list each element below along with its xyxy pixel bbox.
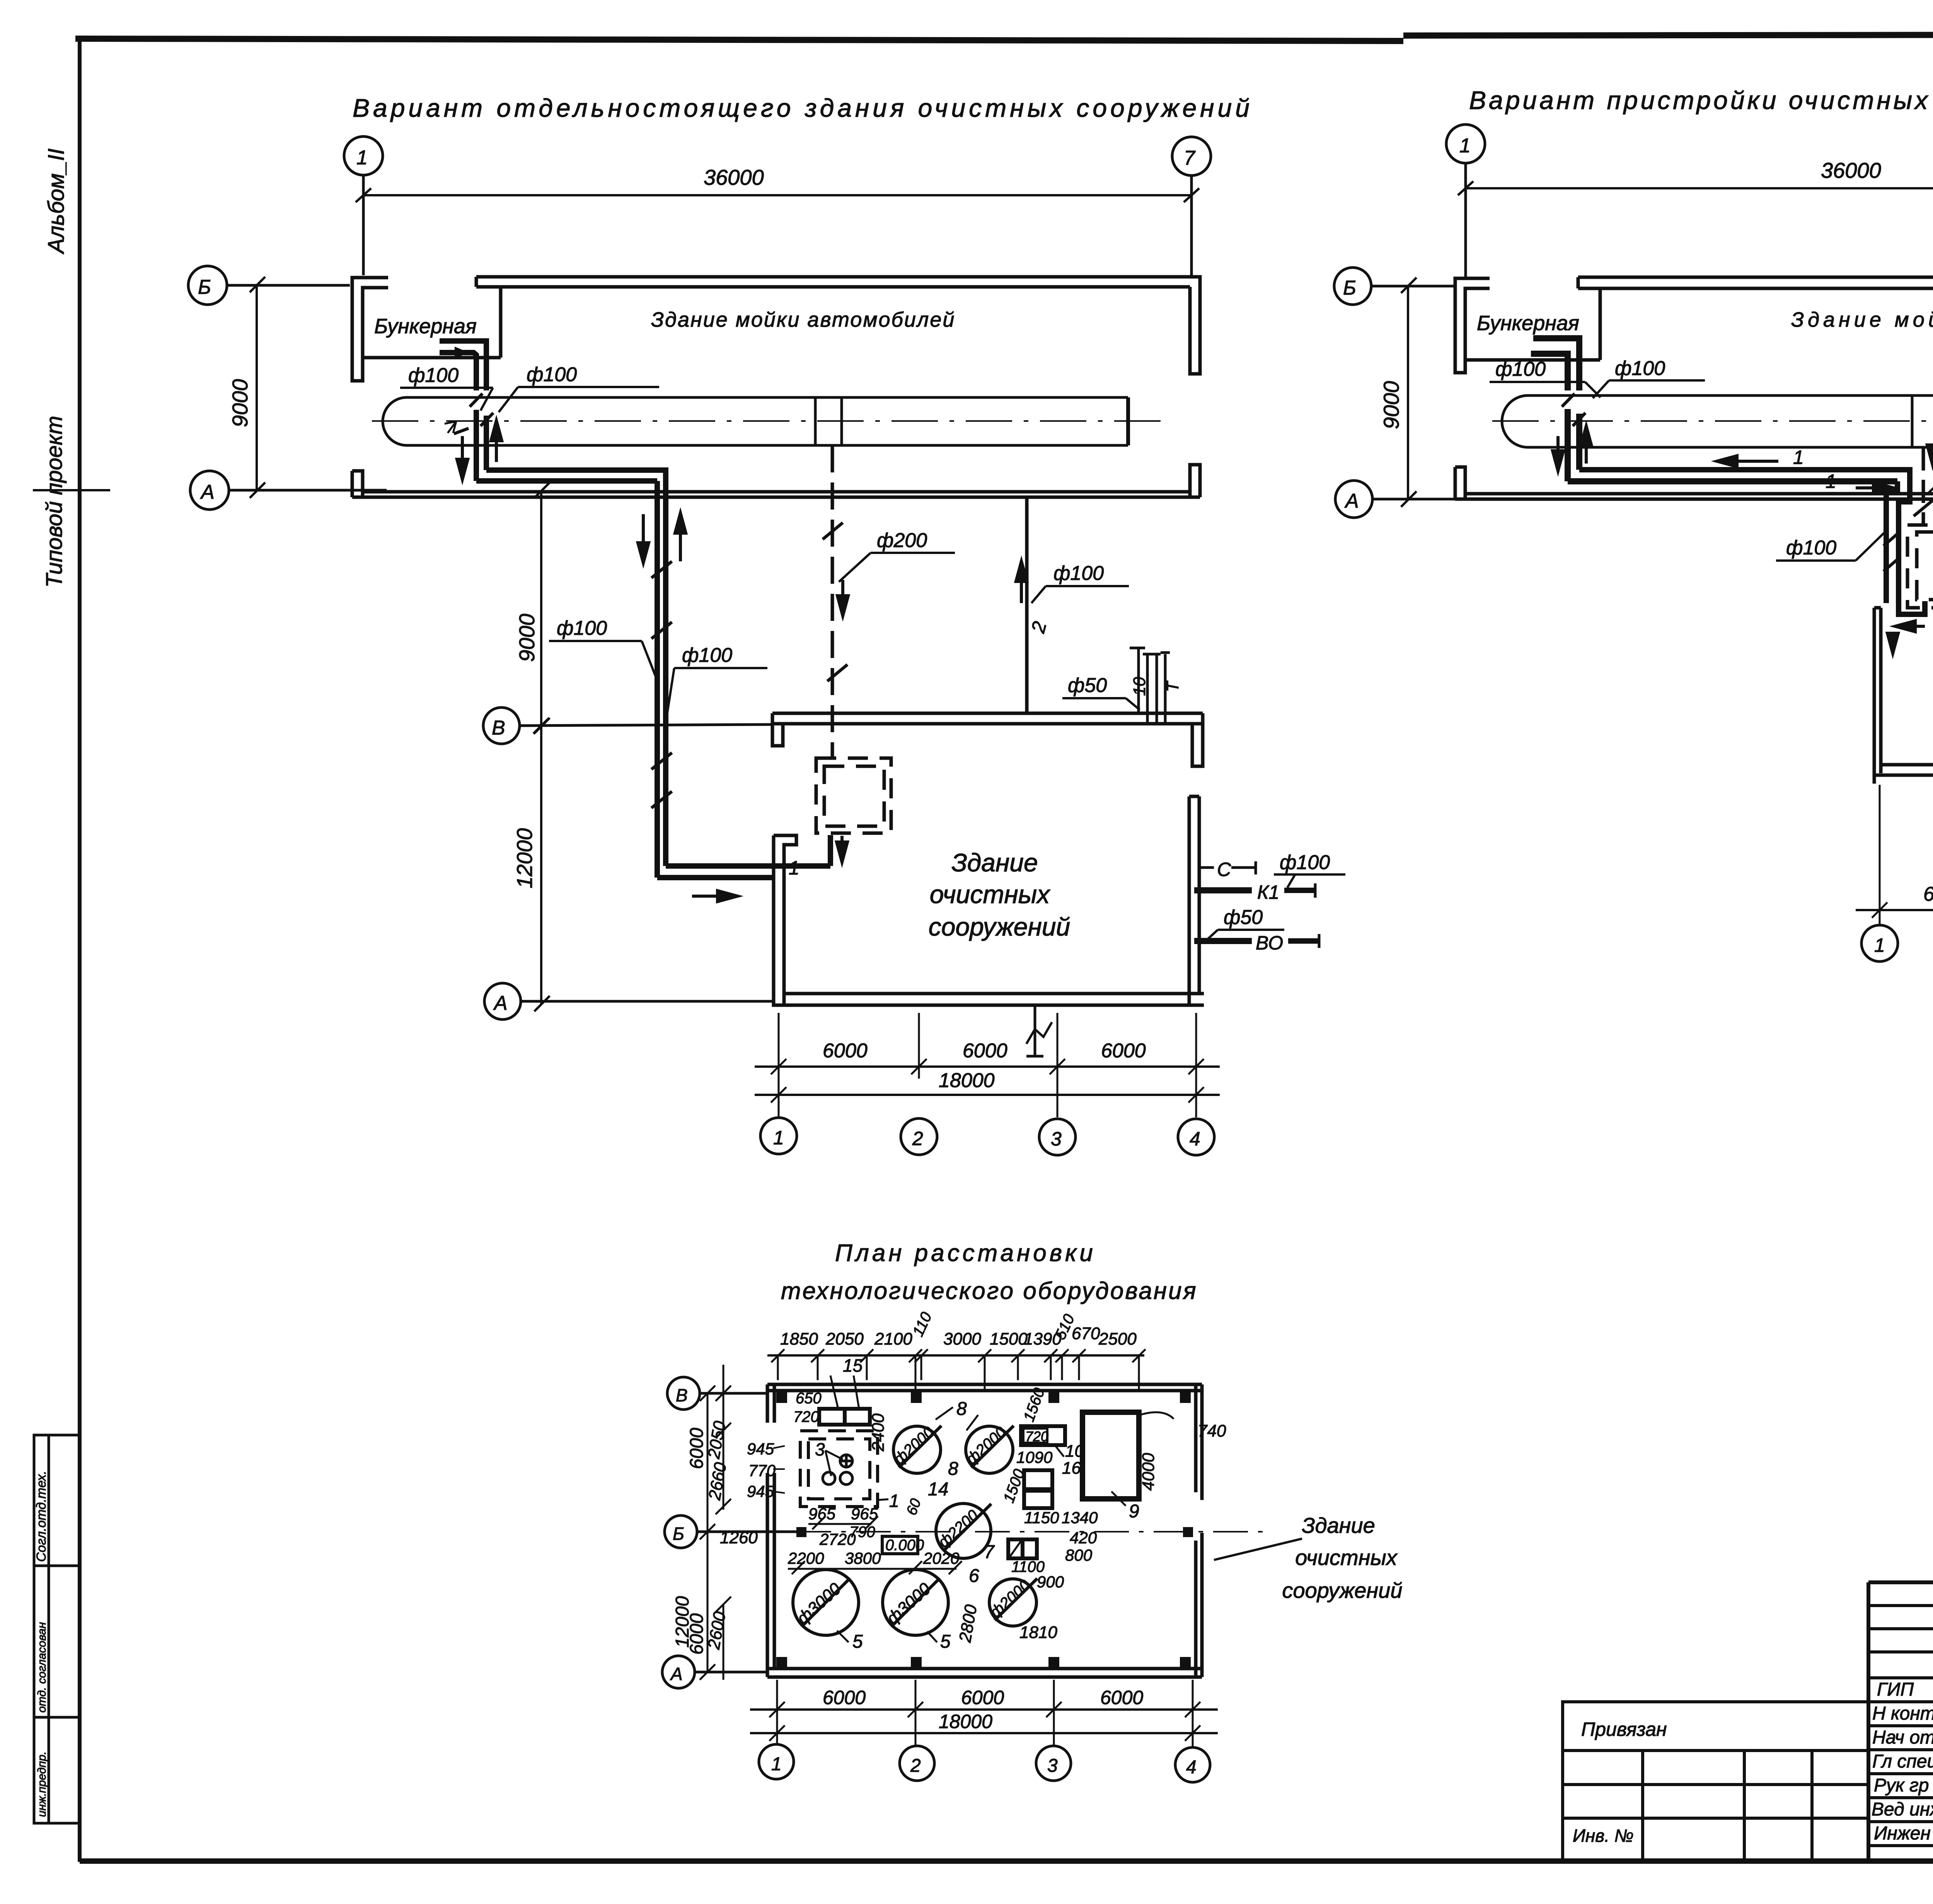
svg-text:14: 14 xyxy=(928,1479,948,1500)
svg-text:1: 1 xyxy=(789,857,799,879)
svg-text:ф100: ф100 xyxy=(682,644,732,666)
wash building walls (right drawing) xyxy=(1455,277,1933,530)
circles f2000 pair (pos 8) xyxy=(893,1426,1014,1473)
building label with leader xyxy=(1282,1513,1403,1602)
dim 9000 vertical left xyxy=(228,277,265,498)
dim 9000 vertical right drawing xyxy=(1379,278,1417,507)
slash marks on vertical pipe xyxy=(651,561,672,808)
svg-text:Вед инж: Вед инж xyxy=(1872,1799,1933,1820)
svg-text:2500: 2500 xyxy=(1098,1330,1137,1348)
svg-text:6000: 6000 xyxy=(823,1040,868,1062)
axis 1 circle xyxy=(1446,124,1485,277)
svg-text:15: 15 xyxy=(843,1355,863,1376)
svg-text:План расстановки: План расстановки xyxy=(835,1240,1096,1266)
svg-text:6000: 6000 xyxy=(687,1428,707,1469)
svg-text:ф100: ф100 xyxy=(1495,358,1546,380)
svg-text:А: А xyxy=(670,1664,683,1684)
svg-text:4: 4 xyxy=(1190,1128,1200,1150)
plan top dim chain xyxy=(767,1309,1145,1390)
dim 36000 right xyxy=(1458,158,1933,195)
svg-text:770: 770 xyxy=(748,1461,776,1480)
axis 1 circle xyxy=(344,136,383,275)
pipe f200 dashed vertical xyxy=(831,445,834,758)
outlet BO f50 xyxy=(1194,906,1319,954)
bottom dim chain right drawing xyxy=(1856,777,1933,925)
svg-text:Здание мойки автомобилей: Здание мойки автомобилей xyxy=(651,308,955,331)
plan axis circles left xyxy=(662,1377,796,1688)
svg-text:3800: 3800 xyxy=(845,1549,881,1567)
svg-text:1: 1 xyxy=(1459,135,1471,157)
svg-text:С: С xyxy=(1217,859,1231,880)
svg-text:1: 1 xyxy=(1874,934,1885,956)
wash bottom wall xyxy=(363,490,1190,494)
labels f100 f100 upper xyxy=(400,363,659,412)
svg-text:Вариант пристройки очистных: Вариант пристройки очистных сооружений к… xyxy=(1469,86,1933,114)
svg-text:4000: 4000 xyxy=(1139,1453,1158,1491)
svg-text:Согл.отд.тех.: Согл.отд.тех. xyxy=(34,1471,49,1562)
tank pos 9 xyxy=(1082,1412,1139,1499)
left attachment table xyxy=(1563,1702,1868,1861)
axis Б circle xyxy=(188,266,350,305)
svg-text:ф200: ф200 xyxy=(877,529,927,552)
plan left dims xyxy=(672,1365,785,1680)
label f200 xyxy=(839,529,955,582)
bottom axis circles right drawing xyxy=(1861,925,1933,963)
plan axis circles bottom xyxy=(759,1744,1210,1782)
svg-text:Бункерная: Бункерная xyxy=(1477,312,1579,335)
svg-text:2: 2 xyxy=(910,1756,921,1776)
arrows beside vertical pipe xyxy=(638,513,686,563)
stacked rects 1500 xyxy=(1024,1470,1052,1508)
wash channel (flume) xyxy=(383,397,1128,445)
svg-text:1850: 1850 xyxy=(780,1330,818,1348)
svg-text:Вариант отдельностоящего зд: Вариант отдельностоящего здания очистных… xyxy=(353,94,1253,122)
svg-text:12000: 12000 xyxy=(672,1596,693,1648)
labels f100 f100 right drawing top xyxy=(1490,357,1705,398)
svg-text:8: 8 xyxy=(948,1459,958,1479)
labels f100 pair mid xyxy=(549,617,767,723)
svg-text:Б: Б xyxy=(673,1524,684,1544)
down arrow left of pipes xyxy=(457,421,502,479)
svg-text:6000: 6000 xyxy=(1100,1687,1143,1708)
svg-text:9: 9 xyxy=(1129,1501,1139,1522)
bunker room left wall xyxy=(352,278,388,381)
svg-text:18000: 18000 xyxy=(939,1069,995,1092)
label f100 into building right xyxy=(1776,530,1887,561)
channel centerline xyxy=(372,420,1163,422)
column marks xyxy=(776,1392,1193,1668)
small rect pair mid right xyxy=(1008,1539,1037,1558)
svg-text:12000: 12000 xyxy=(512,828,537,888)
svg-text:сооружений: сооружений xyxy=(929,912,1070,941)
arrow under horizontal pipe run xyxy=(692,891,738,902)
svg-text:5: 5 xyxy=(940,1631,951,1652)
svg-text:ф100: ф100 xyxy=(1280,851,1330,874)
svg-text:1: 1 xyxy=(773,1127,784,1149)
svg-text:Инв. №: Инв. № xyxy=(1573,1826,1634,1846)
correction: lower pipe to wall xyxy=(1579,438,1933,614)
dim 36000 xyxy=(356,165,1199,202)
svg-text:Инжен: Инжен xyxy=(1874,1823,1931,1844)
elbow down to horizontal run xyxy=(476,478,657,484)
svg-text:ф100: ф100 xyxy=(1786,537,1836,559)
dashed room (pos 3) xyxy=(800,1431,878,1507)
svg-text:2: 2 xyxy=(912,1128,923,1149)
svg-text:10: 10 xyxy=(1065,1442,1084,1461)
svg-text:2400: 2400 xyxy=(869,1413,888,1452)
svg-text:А: А xyxy=(493,992,508,1014)
label f50 risers xyxy=(1062,674,1140,710)
slash break marks on pipes at channel xyxy=(445,394,493,434)
hydrocyclone pit dashed square xyxy=(816,758,891,833)
svg-text:Альбом_II: Альбом_II xyxy=(44,148,69,254)
svg-text:Типовой проект: Типовой проект xyxy=(42,416,67,588)
svg-text:1: 1 xyxy=(889,1491,899,1511)
circle f2200 (pos 7) xyxy=(936,1503,991,1558)
svg-text:Т: Т xyxy=(1163,680,1182,692)
top wall of wash building xyxy=(476,275,1190,279)
label f100 right xyxy=(1031,562,1129,603)
svg-text:650: 650 xyxy=(796,1390,822,1407)
svg-text:900: 900 xyxy=(1037,1573,1064,1591)
circle f2000 (pos 6) xyxy=(989,1578,1037,1626)
svg-text:1: 1 xyxy=(356,147,368,169)
svg-text:В: В xyxy=(676,1385,688,1405)
svg-text:5: 5 xyxy=(852,1631,863,1652)
svg-text:9000: 9000 xyxy=(515,614,539,662)
svg-text:945: 945 xyxy=(747,1440,774,1458)
bottom axis circles 1-4 left drawing xyxy=(760,1118,1214,1155)
svg-text:36000: 36000 xyxy=(1821,158,1881,182)
mid dims xyxy=(788,1497,960,1567)
pipe 2 f100 vertical right xyxy=(1025,497,1029,713)
svg-text:инж.предпр.: инж.предпр. xyxy=(36,1751,48,1817)
svg-text:9000: 9000 xyxy=(1379,381,1403,429)
drain N below building xyxy=(1026,1005,1052,1056)
svg-text:ф100: ф100 xyxy=(527,363,577,386)
vertical pipe pair down to lower building xyxy=(657,481,830,878)
dim 9000/12000 vertical mid xyxy=(512,482,550,1011)
svg-text:2020: 2020 xyxy=(923,1549,960,1567)
bottom dim chain left drawing xyxy=(755,1013,1220,1117)
svg-text:А: А xyxy=(200,481,215,503)
svg-text:4: 4 xyxy=(1186,1757,1197,1778)
svg-text:Здание: Здание xyxy=(1302,1513,1375,1538)
svg-text:очистных: очистных xyxy=(1295,1545,1398,1570)
svg-text:ф100: ф100 xyxy=(557,617,607,639)
svg-text:В: В xyxy=(492,717,505,739)
plan bottom dims xyxy=(750,1680,1218,1747)
svg-text:670: 670 xyxy=(1072,1324,1100,1343)
hydrocyclone pit dashed right xyxy=(1907,525,1933,608)
svg-text:1090: 1090 xyxy=(1016,1448,1053,1466)
axis А lower circle left drawing xyxy=(484,983,773,1019)
svg-text:Нач отд: Нач отд xyxy=(1872,1727,1933,1748)
svg-text:7: 7 xyxy=(1184,147,1196,169)
two circles f3000 (pos 5) xyxy=(793,1570,948,1635)
svg-text:6000: 6000 xyxy=(1101,1040,1146,1062)
svg-text:очистных: очистных xyxy=(930,880,1050,909)
svg-text:ВО: ВО xyxy=(1256,932,1283,954)
bunker/wash partition wall xyxy=(499,288,503,358)
svg-text:6: 6 xyxy=(969,1566,979,1586)
left margin vertical labels xyxy=(42,148,69,588)
svg-text:Здание мойки автомобилей: Здание мойки автомобилей xyxy=(1791,308,1933,331)
svg-text:Привязан: Привязан xyxy=(1581,1718,1667,1740)
svg-text:ф100: ф100 xyxy=(1053,562,1104,585)
svg-text:Н контр: Н контр xyxy=(1872,1703,1933,1724)
svg-text:6000: 6000 xyxy=(961,1687,1004,1708)
axis 7 circle xyxy=(1172,137,1211,277)
centerline Б axis through plan xyxy=(796,1531,1272,1532)
lower building (treatment) walls xyxy=(772,713,1204,1005)
slashes and arrows on bunker pipes right xyxy=(1562,394,1585,426)
pipe f100 pair from bunker right drawing xyxy=(1531,338,1897,481)
svg-text:800: 800 xyxy=(1065,1546,1093,1564)
svg-text:1: 1 xyxy=(771,1754,782,1774)
svg-text:3: 3 xyxy=(1051,1128,1062,1150)
wash building walls (left) xyxy=(352,277,1200,497)
svg-text:7: 7 xyxy=(984,1542,995,1562)
svg-text:ф100: ф100 xyxy=(408,364,459,387)
svg-text:1100: 1100 xyxy=(1011,1558,1045,1575)
svg-text:отд. согласован: отд. согласован xyxy=(36,1622,48,1713)
axis В circle left drawing xyxy=(483,707,773,744)
svg-text:9000: 9000 xyxy=(228,379,252,427)
svg-text:3000: 3000 xyxy=(943,1330,981,1348)
plan building walls xyxy=(767,1384,1202,1677)
svg-text:1260: 1260 xyxy=(720,1528,758,1547)
svg-text:ГИП: ГИП xyxy=(1877,1679,1914,1700)
wash right wall xyxy=(1190,277,1200,374)
0.000 box xyxy=(882,1536,924,1554)
outer boundaries xyxy=(1868,1580,1933,1584)
svg-text:Здание: Здание xyxy=(951,848,1038,877)
svg-text:0.000: 0.000 xyxy=(885,1537,924,1554)
svg-text:3: 3 xyxy=(815,1439,825,1459)
pipe entry into pit xyxy=(837,836,847,862)
svg-text:1810: 1810 xyxy=(1019,1623,1057,1642)
label f200 right xyxy=(1927,446,1933,494)
title block texts xyxy=(1872,1602,1933,1899)
svg-text:720: 720 xyxy=(793,1408,819,1425)
axis А circle right drawing left xyxy=(1335,481,1456,518)
svg-text:1: 1 xyxy=(1826,470,1836,492)
small arrow on bunker pipe xyxy=(445,348,466,357)
svg-text:технологического оборудования: технологического оборудования xyxy=(781,1278,1198,1304)
svg-text:Б: Б xyxy=(1343,277,1356,299)
svg-text:16: 16 xyxy=(1062,1459,1081,1478)
svg-text:2200: 2200 xyxy=(788,1549,824,1567)
svg-text:К1: К1 xyxy=(1257,881,1279,903)
svg-text:8: 8 xyxy=(956,1399,967,1419)
building label xyxy=(929,848,1070,941)
svg-text:36000: 36000 xyxy=(704,165,764,189)
svg-text:ф100: ф100 xyxy=(1615,357,1665,380)
svg-text:740: 740 xyxy=(1198,1422,1226,1440)
svg-text:10: 10 xyxy=(1130,677,1149,696)
bottom line of bunker room xyxy=(363,356,501,360)
svg-text:720: 720 xyxy=(1025,1428,1048,1444)
svg-text:3: 3 xyxy=(1047,1756,1058,1776)
svg-text:2050: 2050 xyxy=(825,1330,864,1348)
risers f50/10/T at top of lower building xyxy=(1130,648,1170,724)
svg-text:945: 945 xyxy=(747,1482,774,1500)
axis А upper circle xyxy=(33,471,387,510)
pipe f100 pair from bunker xyxy=(440,341,666,481)
svg-text:Бункерная: Бункерная xyxy=(374,315,477,338)
axis Б circle right drawing xyxy=(1334,268,1454,305)
svg-text:1340: 1340 xyxy=(1062,1509,1098,1527)
outlet K1 f100 xyxy=(1194,887,1252,893)
svg-text:18000: 18000 xyxy=(939,1711,992,1732)
svg-text:6000: 6000 xyxy=(963,1040,1007,1062)
rect pos 10/16 xyxy=(1021,1426,1065,1445)
svg-text:1500: 1500 xyxy=(990,1330,1028,1348)
svg-text:А: А xyxy=(1344,490,1359,512)
svg-text:Рук гр: Рук гр xyxy=(1874,1775,1929,1796)
svg-text:6000: 6000 xyxy=(823,1687,866,1708)
svg-text:6000: 6000 xyxy=(1923,883,1933,905)
svg-text:Б: Б xyxy=(198,276,211,298)
slash marks near zigzag xyxy=(1884,531,1901,571)
svg-text:ф50: ф50 xyxy=(1224,906,1263,929)
svg-text:1150: 1150 xyxy=(1024,1509,1059,1527)
f200 riser right drawing xyxy=(1922,447,1925,525)
svg-text:2100: 2100 xyxy=(874,1330,912,1348)
wash channel right drawing xyxy=(1502,395,1933,447)
rect pos 15 xyxy=(819,1409,870,1425)
svg-text:Гл спец: Гл спец xyxy=(1872,1751,1933,1772)
svg-text:1: 1 xyxy=(1793,447,1804,468)
bottom-left rotated stamp table xyxy=(34,1435,80,1823)
treatment building walls right drawing xyxy=(1874,556,1933,784)
outlet C xyxy=(1199,859,1256,880)
svg-text:ф50: ф50 xyxy=(1068,674,1107,697)
svg-text:сооружений: сооружений xyxy=(1282,1578,1403,1602)
